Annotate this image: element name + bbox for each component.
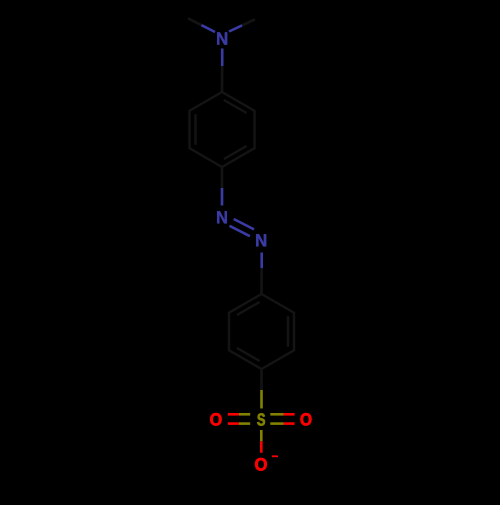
bond ring2-S (carbon half) [260,369,263,390]
ring1 inner double bond top-right [224,100,247,113]
bond N1-CH3 right (nitrogen half) [229,25,242,31]
S=O right lower line sulfur half [270,422,283,425]
ring2 inner double bond bottom-left [237,348,260,361]
S=O right upper line sulfur half [270,413,283,416]
bond Nb-ring2 (carbon half) [260,268,263,294]
S=O left double bond lower line [228,422,250,425]
bond N1-CH3 left (nitrogen half) [202,25,216,32]
S=O right lower line oxygen half [284,422,295,425]
S=O right upper line oxygen half [284,413,295,416]
azo N=N double bond line 2 [230,226,250,236]
S=O left lower line sulfur half [239,422,250,425]
ring1 inner double bond bottom-right [224,146,247,159]
bond S-Ominus (oxygen half) [260,441,263,453]
atom label Na (azo N) [217,211,227,223]
atom label O minus [255,458,267,471]
atom label O right [301,413,312,425]
S=O right double bond upper line [270,413,294,416]
bond N1-CH3 right (carbon half) [242,19,255,25]
bond N1-CH3 left (carbon half) [188,18,202,25]
azo N=N double bond line 1 [234,219,254,229]
ring2 inner double bond top-left [237,302,260,315]
bond S-Ominus (sulfur half) [260,430,263,441]
bond N1-ring1 (carbon half) [221,66,224,92]
atom label O left [210,413,221,425]
ring1 benzene [190,92,255,167]
S=O right double bond lower line [270,422,294,425]
bond Nb-ring2 (nitrogen half) [260,253,263,269]
ring1 inner double bond left [194,114,196,145]
S=O left double bond upper line [228,413,250,416]
atom label S [257,413,265,425]
atom label N1 (dimethylamino N) [217,32,227,44]
S=O left upper line sulfur half [239,413,250,416]
S=O left lower line oxygen half [228,422,239,425]
atom label Nb (azo N) [256,234,266,246]
S=O left upper line oxygen half [228,413,239,416]
minus charge dash [272,455,278,457]
bond ring1-Na (carbon half) [221,167,224,188]
ring2 inner double bond right [287,316,289,347]
ring2 benzene [229,294,294,369]
bond ring1-Na (nitrogen half) [221,188,224,206]
bond N1-ring1 (nitrogen half) [221,49,224,67]
bond ring2-S (sulfur half) [260,390,263,409]
